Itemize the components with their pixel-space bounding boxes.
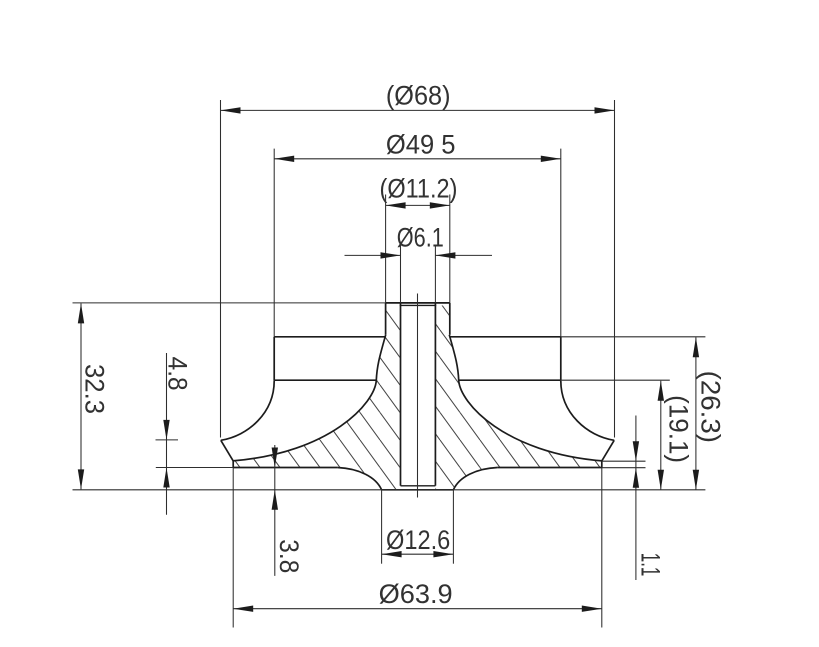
arrow 19.1 top — [658, 381, 664, 401]
arrow 26.3 bottom — [693, 470, 699, 490]
arrow phi49.5 right — [541, 156, 561, 162]
dimension line phi12.6 — [382, 553, 454, 555]
arrow 3.8 top — [272, 448, 278, 468]
bore wall left — [400, 303, 402, 486]
blade shroud vertical right — [560, 337, 562, 381]
svg-text:32.3: 32.3 — [80, 364, 110, 414]
svg-text:4.8: 4.8 — [163, 357, 193, 391]
dimension line 4.8 — [166, 353, 168, 515]
backdisk face left — [233, 467, 337, 469]
rim edge left — [232, 461, 234, 468]
hatch hub left — [233, 306, 400, 490]
backdisk face extension right — [602, 467, 646, 469]
svg-text:1.1: 1.1 — [636, 553, 666, 577]
svg-text:(19.1): (19.1) — [664, 395, 694, 463]
dimension line phi68 — [221, 109, 615, 111]
extension line 32.3 top — [73, 302, 386, 304]
arrow 26.3 top — [693, 337, 699, 357]
extension line phi68 left — [220, 100, 222, 438]
arrow 1.1 bottom — [633, 468, 639, 488]
svg-text:Ø49 5: Ø49 5 — [386, 129, 456, 159]
boss bottom face — [382, 489, 454, 491]
extension line phi11.2 right — [449, 195, 451, 303]
arrow 32.3 bottom — [78, 469, 84, 489]
svg-text:(Ø11.2): (Ø11.2) — [380, 174, 458, 204]
dimension line 1.1 — [635, 416, 637, 581]
arrow 3.8 bottom — [272, 490, 278, 510]
dimension line phi6.1 right tail — [435, 254, 492, 256]
blade inducer tip edge right — [449, 336, 561, 338]
centerline — [417, 294, 419, 498]
backdisk face extension left — [156, 467, 233, 469]
extension line phi63.9 right — [601, 468, 603, 628]
splitter blade edge right — [459, 379, 561, 381]
dimension line 26.3 — [695, 337, 697, 490]
hub contour right — [449, 335, 602, 461]
arrow phi6.1 right — [435, 252, 455, 258]
arrow phi68 right — [595, 107, 615, 113]
blade inducer tip edge left — [274, 336, 386, 338]
extension line phi6.1 right — [434, 245, 436, 303]
dimension line 19.1 — [660, 381, 662, 490]
svg-text:Ø12.6: Ø12.6 — [386, 525, 450, 555]
hub nose right edge — [449, 303, 451, 335]
arrow phi63.9 right — [582, 606, 602, 612]
blade tip slant right — [602, 440, 614, 461]
extension line phi6.1 left — [400, 245, 402, 303]
blade shroud curve right — [561, 381, 614, 441]
arrow 4.8 bottom — [163, 468, 169, 488]
backdisk face right — [497, 467, 601, 469]
blade tip extension right — [602, 460, 646, 462]
bore top edge — [400, 304, 437, 306]
arrow 1.1 top — [633, 441, 639, 461]
dimension line 32.3 — [80, 303, 82, 489]
arrow 32.3 top — [78, 303, 84, 323]
extension line phi11.2 left — [385, 195, 387, 303]
arrow phi49.5 left — [274, 156, 294, 162]
dimension line phi11.2 — [386, 204, 450, 206]
hub nose top face — [386, 302, 450, 304]
extension line 19.1 top — [561, 379, 670, 381]
bottom reference line — [73, 489, 706, 491]
dimension line phi63.9 — [233, 608, 602, 610]
dimension line phi49.5 — [274, 158, 561, 160]
blade shroud curve left — [221, 381, 274, 441]
svg-text:Ø6.1: Ø6.1 — [397, 223, 444, 253]
blade tip slant left — [221, 440, 233, 461]
splitter blade edge left — [274, 379, 376, 381]
extension line phi49.5 right — [560, 149, 562, 337]
extension line 4.8 top — [156, 439, 179, 441]
extension line phi12.6 left — [381, 490, 383, 564]
extension line 26.3 top — [561, 336, 706, 338]
hub fillet right — [453, 468, 497, 490]
dimension line phi6.1 left tail — [345, 254, 401, 256]
hub fillet left — [338, 468, 382, 490]
extension line phi63.9 left — [232, 468, 234, 628]
svg-text:3.8: 3.8 — [274, 539, 304, 573]
rim edge right — [601, 461, 603, 468]
bore bottom edge — [401, 485, 436, 487]
blade shroud vertical left — [273, 337, 275, 381]
svg-text:Ø63.9: Ø63.9 — [379, 579, 453, 609]
arrow phi63.9 left — [233, 606, 253, 612]
dimension line 3.8 — [274, 445, 276, 576]
bore wall right — [434, 303, 436, 486]
hub nose left edge — [385, 303, 387, 335]
svg-text:(Ø68): (Ø68) — [386, 81, 451, 111]
arrow phi6.1 left — [381, 252, 401, 258]
extension line phi68 right — [614, 100, 616, 438]
arrow phi12.6 left — [382, 551, 402, 557]
arrow phi11.2 left — [386, 202, 406, 208]
hatch hub right — [435, 306, 601, 490]
hub contour left — [233, 335, 386, 461]
arrow 19.1 bottom — [658, 470, 664, 490]
arrow 4.8 top — [163, 420, 169, 440]
svg-text:(26.3): (26.3) — [696, 371, 726, 443]
arrow phi12.6 right — [433, 551, 453, 557]
extension line phi49.5 left — [273, 149, 275, 337]
arrow phi68 left — [221, 107, 241, 113]
arrow phi11.2 right — [430, 202, 450, 208]
extension line phi12.6 right — [452, 490, 454, 564]
